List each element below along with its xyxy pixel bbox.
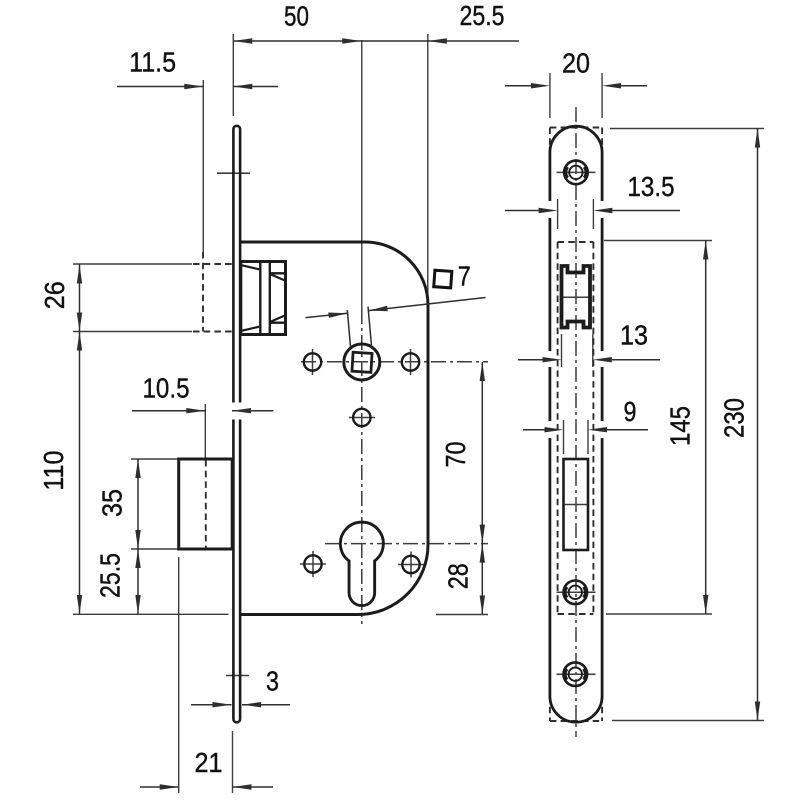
- svg-text:50: 50: [284, 0, 309, 31]
- svg-text:3: 3: [266, 666, 279, 697]
- svg-text:13: 13: [620, 320, 648, 351]
- svg-text:26: 26: [39, 281, 70, 309]
- svg-text:28: 28: [442, 563, 473, 589]
- svg-text:11.5: 11.5: [129, 46, 176, 77]
- svg-text:10.5: 10.5: [143, 372, 190, 403]
- svg-text:7: 7: [458, 261, 471, 292]
- svg-text:145: 145: [665, 406, 696, 446]
- svg-text:20: 20: [562, 48, 590, 79]
- svg-text:70: 70: [440, 442, 471, 468]
- svg-text:13.5: 13.5: [628, 171, 675, 202]
- svg-text:110: 110: [38, 451, 69, 491]
- svg-text:230: 230: [719, 398, 750, 438]
- svg-text:35: 35: [96, 489, 127, 517]
- svg-text:21: 21: [195, 747, 223, 778]
- svg-text:25.5: 25.5: [95, 553, 126, 598]
- svg-text:9: 9: [624, 396, 637, 427]
- svg-text:25.5: 25.5: [460, 0, 505, 31]
